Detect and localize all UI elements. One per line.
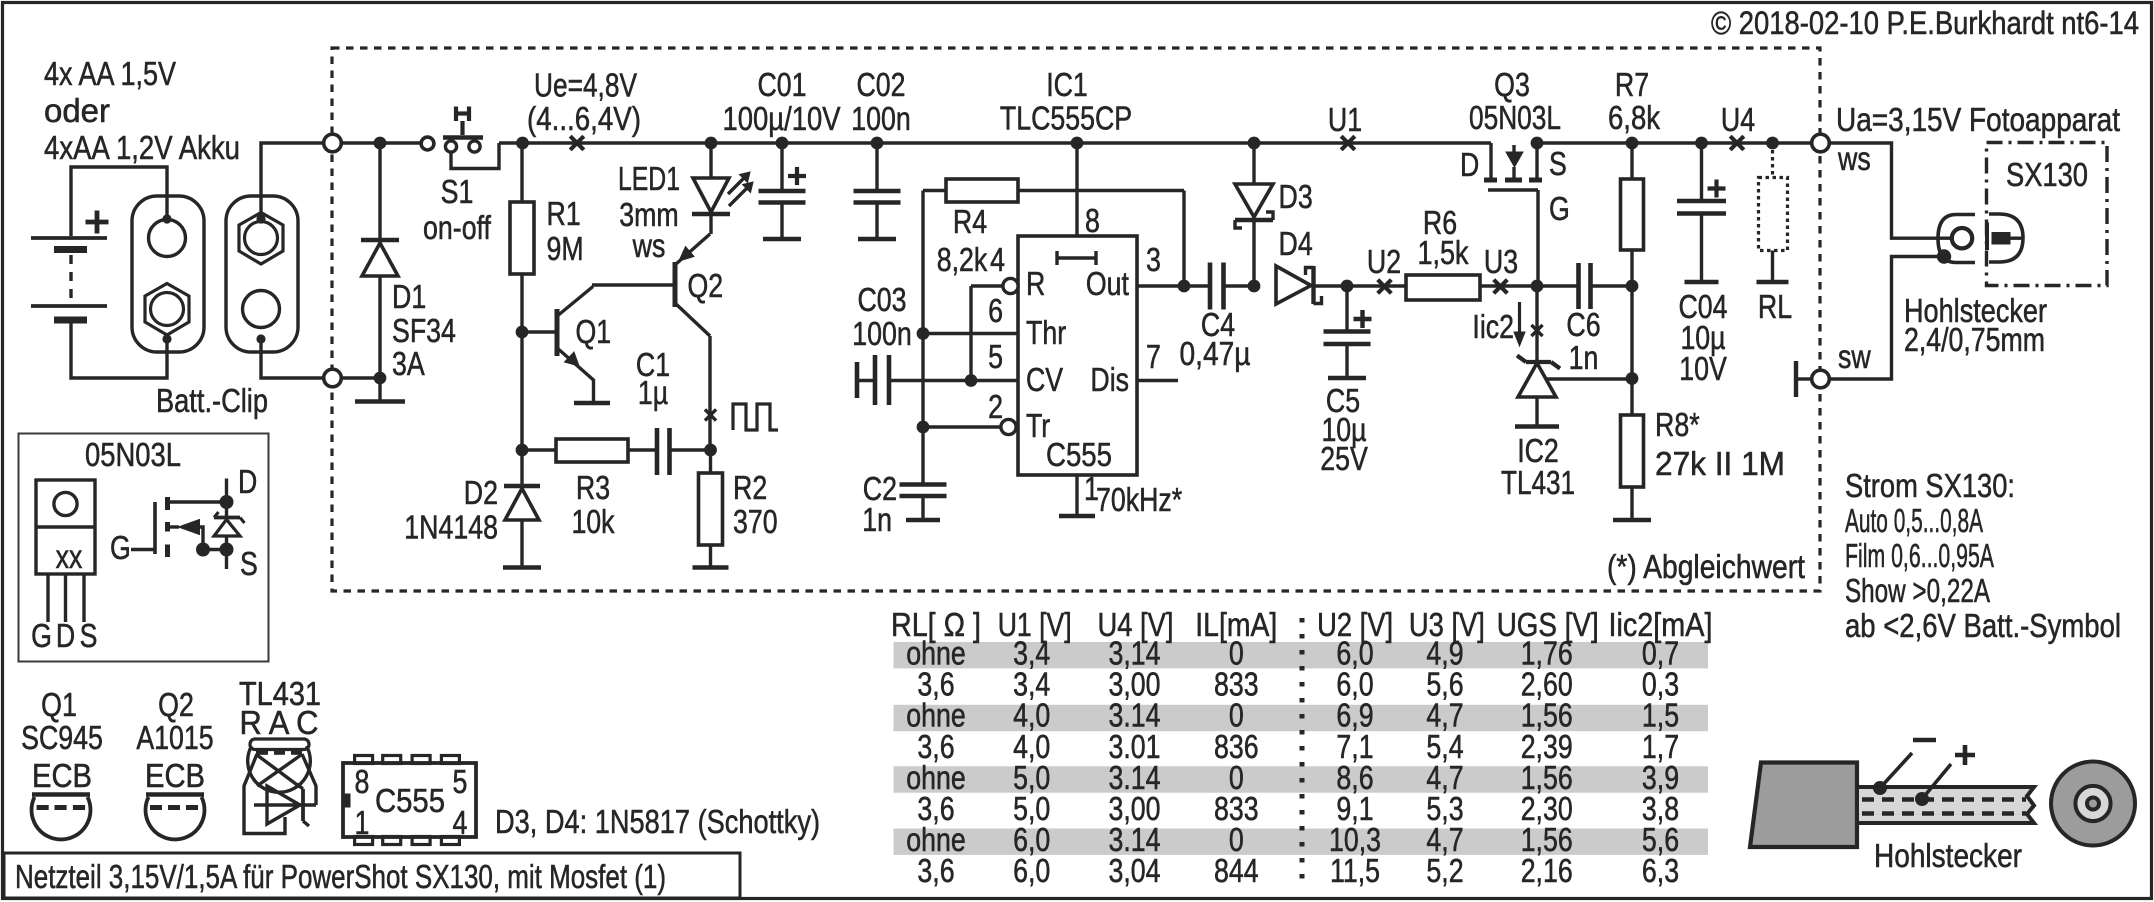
svg-text:Thr: Thr xyxy=(1026,314,1066,351)
svg-text:Hohlstecker: Hohlstecker xyxy=(1874,837,2022,874)
shunt regulator IC2 TL431 xyxy=(1535,286,1538,362)
svg-text:Ue=4,8V: Ue=4,8V xyxy=(534,67,637,104)
svg-text:D4: D4 xyxy=(1279,225,1313,262)
svg-text:4: 4 xyxy=(990,241,1005,278)
IC1 pin 1 ground xyxy=(1075,475,1078,515)
ground xyxy=(763,237,801,242)
IC1 pin 3 Out wire xyxy=(1137,284,1209,287)
ground xyxy=(574,401,610,406)
svg-text:0,47µ: 0,47µ xyxy=(1180,335,1251,372)
diode D2 1N4148 xyxy=(520,450,523,486)
ground xyxy=(693,565,729,570)
svg-text:R2: R2 xyxy=(733,469,767,506)
IC1 TLC555CP body xyxy=(1018,236,1137,475)
svg-text:Q1: Q1 xyxy=(576,313,612,350)
plug body outline xyxy=(1938,215,1975,263)
svg-text:TL431: TL431 xyxy=(1501,464,1575,501)
svg-text:Iic2: Iic2 xyxy=(1472,308,1514,345)
svg-text:ws: ws xyxy=(1837,140,1871,177)
svg-text:S1: S1 xyxy=(441,173,474,210)
Q2 TO-92 package xyxy=(146,792,204,797)
plus lead xyxy=(1915,792,1929,806)
load resistor RL (dotted) xyxy=(1766,137,1779,150)
wire bottom rail input to D1 xyxy=(341,376,380,379)
LED1 emission arrows xyxy=(728,178,744,194)
node Thr junction xyxy=(917,327,930,340)
svg-text:R7: R7 xyxy=(1615,66,1649,103)
svg-text:10V: 10V xyxy=(1679,350,1727,387)
svg-text:D2: D2 xyxy=(464,474,498,511)
svg-text:xx: xx xyxy=(56,538,83,575)
ground xyxy=(1328,376,1366,381)
wire rail mosfet S to output xyxy=(1537,141,1812,144)
battery clip 1 (left) xyxy=(132,196,204,352)
transistor Q2 A1015 xyxy=(673,262,678,307)
svg-text:A1015: A1015 xyxy=(136,719,213,756)
svg-text:11,5: 11,5 xyxy=(1330,852,1380,889)
ground xyxy=(858,237,896,242)
svg-text:SC945: SC945 xyxy=(21,719,103,756)
svg-text:4x AA 1,5V: 4x AA 1,5V xyxy=(44,55,176,92)
ground xyxy=(1757,280,1789,285)
svg-text:2,16: 2,16 xyxy=(1521,852,1573,889)
junction node S1/R1 xyxy=(516,137,529,150)
svg-text:3A: 3A xyxy=(392,345,425,382)
node Q1 base junction xyxy=(516,326,529,339)
svg-text:2,4/0,75mm: 2,4/0,75mm xyxy=(1904,321,2045,358)
svg-text:S: S xyxy=(240,545,258,582)
svg-text:D1: D1 xyxy=(392,278,426,315)
wire top rail from switch to mosfet D xyxy=(499,141,1491,144)
svg-text:ws: ws xyxy=(632,227,666,264)
svg-text:RL: RL xyxy=(1758,288,1792,325)
node R4/CV junction xyxy=(965,374,978,387)
svg-text:25V: 25V xyxy=(1320,440,1368,477)
wire ws to plug pin xyxy=(1829,143,1952,238)
svg-text:G: G xyxy=(1549,190,1570,227)
node R3/D2 junction xyxy=(516,444,529,457)
svg-text:1n: 1n xyxy=(862,501,892,538)
svg-text:4: 4 xyxy=(453,804,468,841)
ground xyxy=(1613,518,1651,523)
svg-text:Dis: Dis xyxy=(1090,361,1129,398)
svg-text:5: 5 xyxy=(988,338,1003,375)
capacitor C6 1n xyxy=(1576,263,1581,309)
svg-text:3,04: 3,04 xyxy=(1109,852,1161,889)
measurement table xyxy=(894,642,1709,668)
node D3/D4 junction xyxy=(1248,280,1261,293)
measure mark U4 xyxy=(1730,136,1744,150)
svg-text:1,5k: 1,5k xyxy=(1418,234,1469,271)
diode D4 1N5817 xyxy=(1276,266,1311,304)
svg-text:4xAA 1,2V Akku: 4xAA 1,2V Akku xyxy=(44,129,240,166)
svg-text:G: G xyxy=(31,617,52,654)
inset box 05N03L pinout xyxy=(19,434,269,662)
transistor Q3 05N03L mosfet xyxy=(1489,143,1492,180)
svg-text:CV: CV xyxy=(1026,361,1063,398)
battery clip 2 (right) xyxy=(226,196,298,352)
svg-text:TLC555CP: TLC555CP xyxy=(1000,100,1132,137)
svg-text:C01: C01 xyxy=(758,66,807,103)
ground xyxy=(355,399,405,404)
transistor Q1 SC945 xyxy=(522,330,557,333)
capacitor C02 100n xyxy=(871,137,884,150)
IC1 pin 7 Dis wire (stub) xyxy=(1137,379,1178,382)
svg-text:8,2k: 8,2k xyxy=(937,241,988,278)
resistor R1 9M xyxy=(520,143,523,202)
C555 DIP-8 package xyxy=(343,763,476,837)
svg-text:Show >0,22A: Show >0,22A xyxy=(1845,572,1990,609)
svg-text:05N03L: 05N03L xyxy=(85,436,181,473)
svg-text:3: 3 xyxy=(1146,241,1161,278)
title box xyxy=(4,853,740,898)
svg-text:D3, D4: 1N5817 (Schottky): D3, D4: 1N5817 (Schottky) xyxy=(495,803,820,840)
svg-text:R A C: R A C xyxy=(240,704,319,741)
svg-text:3,6: 3,6 xyxy=(917,852,954,889)
svg-text:27k II 1M: 27k II 1M xyxy=(1655,445,1785,482)
capacitor C1 1u xyxy=(655,428,660,475)
svg-text:Ua=3,15V Fotoapparat: Ua=3,15V Fotoapparat xyxy=(1836,101,2120,138)
SX130 dash-dot box xyxy=(1987,143,2108,286)
svg-text:R1: R1 xyxy=(547,195,581,232)
wire clip2 to input terminal top xyxy=(261,143,324,219)
svg-text:Out: Out xyxy=(1086,265,1129,302)
capacitor C4 0,47u xyxy=(1208,263,1213,310)
measure mark Q2 collector xyxy=(705,409,716,420)
ground xyxy=(906,518,940,523)
measure mark U1 xyxy=(1341,136,1355,150)
svg-text:U1: U1 xyxy=(1328,101,1362,138)
svg-text:05N03L: 05N03L xyxy=(1469,99,1561,136)
svg-text:D: D xyxy=(1460,146,1479,183)
resistor R7 6,8k xyxy=(1626,137,1639,150)
svg-text:Q1: Q1 xyxy=(41,686,77,723)
ground xyxy=(503,565,541,570)
capacitor C04 10u 10V xyxy=(1695,137,1708,150)
svg-text:1: 1 xyxy=(355,804,370,841)
capacitor C2 1n xyxy=(921,427,924,484)
svg-text:R4: R4 xyxy=(953,203,987,240)
switch S1 fixed contact circle xyxy=(421,137,434,150)
svg-text:SX130: SX130 xyxy=(2006,156,2088,193)
svg-text:1µ: 1µ xyxy=(638,374,668,411)
svg-text:S: S xyxy=(80,617,98,654)
wire sw to plug sleeve xyxy=(1829,257,1943,380)
switch S1 pushbutton symbol xyxy=(443,135,483,140)
wire top rail from input to switch xyxy=(341,141,421,144)
LED1 3mm ws xyxy=(705,137,718,150)
resistor R3 10k xyxy=(522,448,556,451)
wire battery plus to clip1 xyxy=(71,167,167,236)
sw stub terminal xyxy=(1794,361,1798,397)
svg-text:6,8k: 6,8k xyxy=(1608,99,1660,136)
wire switch S1 to rail xyxy=(451,143,499,169)
svg-text:100n: 100n xyxy=(851,100,911,137)
svg-text:(*) Abgleichwert: (*) Abgleichwert xyxy=(1607,548,1805,585)
svg-text:Batt.-Clip: Batt.-Clip xyxy=(156,382,268,419)
battery B1 symbol xyxy=(31,236,107,240)
svg-text:8: 8 xyxy=(1085,202,1100,239)
ground xyxy=(1685,280,1719,285)
svg-text:5: 5 xyxy=(453,763,468,800)
svg-text:R8*: R8* xyxy=(1655,406,1700,443)
svg-text:Q2: Q2 xyxy=(688,267,724,304)
svg-text:Auto 0,5...0,8A: Auto 0,5...0,8A xyxy=(1845,502,1983,539)
wire R7 node to divider node xyxy=(1630,286,1633,379)
svg-text:2: 2 xyxy=(988,388,1003,425)
resistor R6 1,5k xyxy=(1347,284,1406,287)
IC1 pin 6 Thr wire xyxy=(923,332,1018,335)
svg-text:8: 8 xyxy=(355,763,370,800)
svg-text:844: 844 xyxy=(1214,852,1259,889)
svg-text:(4...6,4V): (4...6,4V) xyxy=(527,100,641,137)
TO-252 package drawing xyxy=(36,480,95,574)
svg-text:Strom SX130:: Strom SX130: xyxy=(1845,467,2015,504)
pulse waveform symbol xyxy=(733,404,778,430)
svg-text:370: 370 xyxy=(733,503,778,540)
wire R1 node down to R3 node xyxy=(520,332,523,450)
svg-text:6,0: 6,0 xyxy=(1013,852,1050,889)
IC1 pin 4 R wire with inverter circle xyxy=(1003,278,1018,293)
jack outline xyxy=(1989,214,2023,262)
IC1 pin 2 Tr wire with inverter circle xyxy=(1001,419,1016,434)
svg-text:C02: C02 xyxy=(857,66,906,103)
wire clip2 to input terminal bottom xyxy=(261,339,324,378)
minus lead xyxy=(1873,781,1887,795)
node C6/R7 junction xyxy=(1626,280,1639,293)
node C1/R2 junction xyxy=(704,444,717,457)
measure mark Iic2 xyxy=(1531,325,1542,336)
svg-text:oder: oder xyxy=(44,92,110,129)
main circuit dashed boundary box xyxy=(332,48,1820,591)
svg-text:© 2018-02-10 P.E.Burkhardt nt6: © 2018-02-10 P.E.Burkhardt nt6-14 xyxy=(1711,5,2139,41)
svg-text:6,3: 6,3 xyxy=(1642,852,1679,889)
input terminal node bottom (open circle) xyxy=(324,369,342,387)
ground xyxy=(1059,514,1095,519)
svg-text:R: R xyxy=(1026,265,1045,302)
measure mark U3 xyxy=(1494,280,1508,294)
svg-text:D: D xyxy=(238,463,257,500)
Hohlstecker plug drawing body xyxy=(1750,763,1857,848)
svg-text:U3: U3 xyxy=(1484,243,1518,280)
svg-text:R3: R3 xyxy=(576,469,610,506)
plug pin circle xyxy=(1952,228,1972,248)
IC1 pin 5 CV wire xyxy=(890,379,1019,382)
svg-text:S: S xyxy=(1549,145,1567,182)
TL431 reference wire xyxy=(1546,377,1632,380)
node Tr junction xyxy=(917,421,930,434)
node divider junction xyxy=(1626,372,1639,385)
svg-text:Q2: Q2 xyxy=(158,686,194,723)
svg-text:ab <2,6V Batt.-Symbol: ab <2,6V Batt.-Symbol xyxy=(1845,607,2121,644)
svg-text:IC1: IC1 xyxy=(1046,66,1088,103)
capacitor C03 100n xyxy=(855,362,860,398)
svg-text:C555: C555 xyxy=(1046,436,1112,473)
TL431 TO-92 package drawing xyxy=(250,739,309,750)
capacitor C5 10u 25V xyxy=(1345,286,1348,331)
svg-text:on-off: on-off xyxy=(423,209,492,246)
svg-text:9M: 9M xyxy=(547,230,584,267)
svg-text:LED1: LED1 xyxy=(618,160,680,197)
node U3 junction xyxy=(1531,280,1544,293)
diode D1 SF34 xyxy=(374,137,387,150)
svg-text:D: D xyxy=(56,617,75,654)
svg-text:7: 7 xyxy=(1146,338,1161,375)
svg-text:70kHz*: 70kHz* xyxy=(1096,481,1182,518)
node C5 junction xyxy=(1341,280,1354,293)
jack end view xyxy=(2051,762,2135,846)
svg-text:Netzteil 3,15V/1,5A für PowerS: Netzteil 3,15V/1,5A für PowerShot SX130,… xyxy=(15,858,666,895)
svg-text:C555: C555 xyxy=(375,782,445,819)
svg-text:ECB: ECB xyxy=(32,757,92,794)
diode D3 1N5817 xyxy=(1248,137,1261,150)
resistor R4 8,2k xyxy=(923,189,946,192)
svg-text:C6: C6 xyxy=(1566,306,1600,343)
svg-text:Q3: Q3 xyxy=(1494,66,1530,103)
svg-text:G: G xyxy=(110,529,131,566)
IC1 reset overline bar xyxy=(1057,256,1096,259)
output terminal ws (open circle) xyxy=(1812,134,1830,152)
measure mark Ue xyxy=(570,136,584,150)
wire battery minus to clip1 bottom xyxy=(71,322,167,378)
IC1 pin 8 wire xyxy=(1071,137,1084,150)
measure mark U2 xyxy=(1378,280,1392,294)
plug barrel xyxy=(1857,787,2034,823)
svg-text:100n: 100n xyxy=(852,315,912,352)
svg-text:SF34: SF34 xyxy=(392,312,456,349)
inset body diode xyxy=(214,516,240,520)
output terminal sw (open circle) xyxy=(1812,370,1830,388)
svg-text:10k: 10k xyxy=(571,503,614,540)
svg-text:C03: C03 xyxy=(858,281,907,318)
svg-text:100µ/10V: 100µ/10V xyxy=(723,100,841,137)
svg-text:ECB: ECB xyxy=(145,757,205,794)
svg-text:1N4148: 1N4148 xyxy=(404,509,498,546)
svg-text:sw: sw xyxy=(1838,338,1871,375)
svg-text:1n: 1n xyxy=(1569,339,1599,376)
table dotted separator xyxy=(1300,618,1305,888)
svg-text:6: 6 xyxy=(988,292,1003,329)
svg-text:U2: U2 xyxy=(1367,243,1401,280)
resistor R2 370 xyxy=(709,450,712,473)
Q1 TO-92 package xyxy=(32,792,90,797)
svg-text:U4: U4 xyxy=(1721,101,1755,138)
resistor R8* 27k||1M xyxy=(1630,379,1633,416)
wire Q1 collector to Q2 base xyxy=(592,283,675,286)
inset mosfet symbol xyxy=(131,548,155,551)
svg-text:D3: D3 xyxy=(1279,178,1313,215)
capacitor C01 100u/10V xyxy=(776,137,789,150)
jack center pin xyxy=(1992,233,2010,245)
svg-text:5,2: 5,2 xyxy=(1426,852,1463,889)
input terminal node top (open circle) xyxy=(324,134,342,152)
svg-text:Film 0,6...0,95A: Film 0,6...0,95A xyxy=(1845,537,1994,574)
